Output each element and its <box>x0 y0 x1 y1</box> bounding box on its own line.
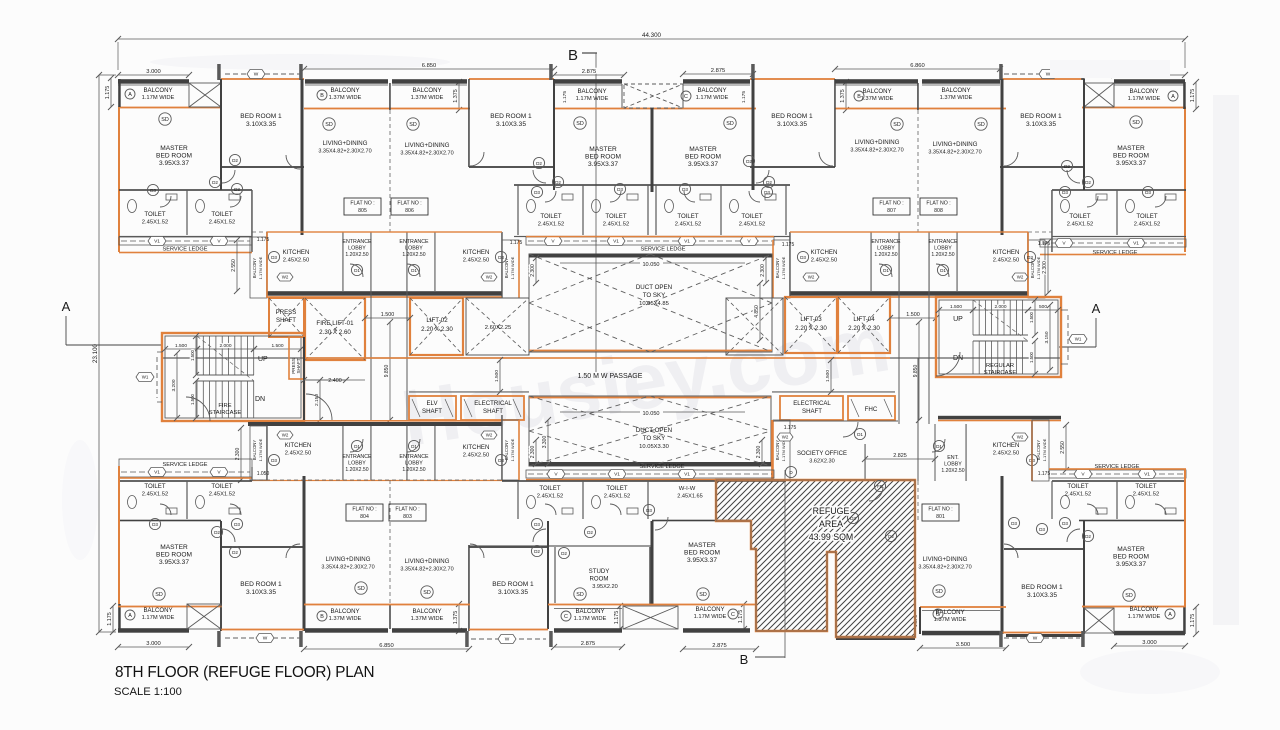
svg-text:1.17M WIDE: 1.17M WIDE <box>510 438 515 461</box>
service ledge top-left <box>119 237 252 245</box>
svg-text:UP: UP <box>258 356 268 363</box>
svg-text:BED ROOM 1: BED ROOM 1 <box>1021 584 1063 591</box>
svg-text:1.20X2.50: 1.20X2.50 <box>345 252 368 258</box>
svg-text:B: B <box>320 93 324 99</box>
svg-text:3.35X4.82+2.30X2.70: 3.35X4.82+2.30X2.70 <box>850 148 903 154</box>
svg-text:D2: D2 <box>587 530 593 535</box>
svg-text:BALCONY: BALCONY <box>143 87 172 94</box>
svg-text:A: A <box>128 92 132 98</box>
svg-text:FHC: FHC <box>865 406 878 413</box>
top overall dimension 44.300 <box>118 38 1185 40</box>
svg-text:2.45X1.65: 2.45X1.65 <box>677 494 703 500</box>
svg-text:500: 500 <box>1039 304 1047 310</box>
svg-text:TOILET: TOILET <box>1135 483 1156 490</box>
svg-text:LOBBY: LOBBY <box>405 461 423 467</box>
svg-text:2.400: 2.400 <box>328 378 342 384</box>
svg-text:UP: UP <box>953 316 963 323</box>
svg-text:STUDY: STUDY <box>589 568 610 575</box>
svg-text:SERVICE LEDGE: SERVICE LEDGE <box>640 464 685 470</box>
svg-text:SD: SD <box>325 122 333 128</box>
svg-text:3.95X3.37: 3.95X3.37 <box>688 161 718 168</box>
svg-text:2.30 X 2.60: 2.30 X 2.60 <box>319 329 351 336</box>
svg-text:3.35X4.82+2.30X2.70: 3.35X4.82+2.30X2.70 <box>928 150 981 156</box>
svg-text:2.45X1.52: 2.45X1.52 <box>1067 222 1093 228</box>
svg-text:2.20 X 2.30: 2.20 X 2.30 <box>421 326 453 333</box>
svg-text:BALCONY: BALCONY <box>504 440 509 461</box>
svg-text:W2: W2 <box>486 433 493 438</box>
svg-text:44.300: 44.300 <box>642 32 661 39</box>
lift 02 <box>410 298 463 355</box>
door arcs top <box>222 170 235 183</box>
svg-text:43.99 SQM: 43.99 SQM <box>809 532 854 542</box>
svg-text:BED ROOM: BED ROOM <box>1113 554 1149 561</box>
svg-text:3.95X3.37: 3.95X3.37 <box>1116 561 1146 568</box>
svg-text:3.35X4.82+2.30X2.70: 3.35X4.82+2.30X2.70 <box>400 567 453 573</box>
svg-text:4.850: 4.850 <box>754 305 760 318</box>
svg-text:1.500: 1.500 <box>271 343 283 349</box>
svg-text:10.05X3.30: 10.05X3.30 <box>639 444 669 450</box>
svg-text:V1: V1 <box>1144 472 1150 478</box>
svg-text:2.60X2.25: 2.60X2.25 <box>485 325 511 331</box>
svg-text:1.17M WIDE: 1.17M WIDE <box>781 256 786 279</box>
svg-text:B: B <box>320 614 324 620</box>
svg-text:ENTRANCE: ENTRANCE <box>399 239 429 245</box>
top band room horizontal walls <box>221 166 304 168</box>
top X-shafts <box>189 83 221 107</box>
svg-text:D2: D2 <box>212 180 218 185</box>
svg-text:LOBBY: LOBBY <box>348 246 366 252</box>
svg-text:BALCONY: BALCONY <box>252 258 257 279</box>
svg-text:SHAFT: SHAFT <box>422 408 442 415</box>
svg-text:W: W <box>254 72 259 78</box>
svg-text:REFUGE: REFUGE <box>813 506 850 516</box>
svg-text:W-I-W: W-I-W <box>679 486 696 492</box>
svg-text:10.05X4.85: 10.05X4.85 <box>639 301 669 307</box>
svg-text:AREA: AREA <box>819 519 843 529</box>
SD circles top <box>159 113 171 125</box>
svg-text:ENTRANCE: ENTRANCE <box>928 239 958 245</box>
svg-text:BALCONY: BALCONY <box>697 87 726 94</box>
dashed window lines bottom <box>225 637 300 639</box>
right shaft <box>726 298 783 355</box>
svg-text:SD: SD <box>935 589 943 595</box>
svg-text:BED ROOM 1: BED ROOM 1 <box>771 113 813 120</box>
svg-text:2.550: 2.550 <box>231 259 237 272</box>
svg-text:2.000: 2.000 <box>219 343 231 349</box>
door arcs bottom <box>160 504 171 515</box>
svg-text:TO SKY: TO SKY <box>643 435 666 442</box>
svg-text:2.45X1.52: 2.45X1.52 <box>675 222 701 228</box>
svg-text:SD: SD <box>726 121 734 127</box>
svg-text:B: B <box>740 652 749 667</box>
svg-text:1.175: 1.175 <box>257 237 270 243</box>
svg-text:D3: D3 <box>534 190 540 195</box>
svg-text:1.175: 1.175 <box>107 612 113 626</box>
svg-text:1.17M WIDE: 1.17M WIDE <box>576 96 609 102</box>
svg-text:BALCONY: BALCONY <box>330 87 359 94</box>
svg-text:D3: D3 <box>1039 527 1045 532</box>
svg-text:1.175: 1.175 <box>105 86 111 100</box>
svg-text:KITCHEN: KITCHEN <box>283 249 310 256</box>
svg-text:2.45X2.50: 2.45X2.50 <box>993 451 1019 457</box>
svg-text:SD: SD <box>161 117 169 123</box>
svg-text:SD: SD <box>699 592 707 598</box>
top orange wall lines <box>221 78 304 80</box>
svg-text:SOCIETY OFFICE: SOCIETY OFFICE <box>797 451 847 457</box>
svg-text:W: W <box>1033 636 1038 642</box>
svg-text:1.37M WIDE: 1.37M WIDE <box>329 95 362 101</box>
refuge area hatched <box>716 480 915 637</box>
svg-text:3.000: 3.000 <box>146 69 161 75</box>
svg-text:3.62X2.30: 3.62X2.30 <box>809 459 835 465</box>
svg-text:BALCONY: BALCONY <box>1036 440 1041 461</box>
svg-text:1.20X2.50: 1.20X2.50 <box>345 467 368 473</box>
svg-text:LIFT-03: LIFT-03 <box>800 316 822 323</box>
svg-text:BED ROOM: BED ROOM <box>585 154 621 161</box>
svg-text:W: W <box>1046 72 1051 78</box>
svg-text:BED ROOM 1: BED ROOM 1 <box>240 113 282 120</box>
service ledge top-right <box>1040 239 1186 247</box>
svg-text:TOILET: TOILET <box>605 213 626 220</box>
svg-text:W: W <box>505 637 510 643</box>
svg-text:3.95X3.37: 3.95X3.37 <box>588 161 618 168</box>
duct open to sky top <box>529 254 772 352</box>
svg-text:B: B <box>857 94 861 100</box>
svg-text:1.37M WIDE: 1.37M WIDE <box>329 616 362 622</box>
regular staircase <box>936 297 1061 377</box>
bottom dims <box>118 646 189 648</box>
svg-text:2.825: 2.825 <box>893 453 907 459</box>
svg-text:BALCONY: BALCONY <box>252 440 257 461</box>
svg-text:D3: D3 <box>1027 255 1033 260</box>
svg-text:3.35X4.82+2.30X2.70: 3.35X4.82+2.30X2.70 <box>400 151 453 157</box>
svg-text:D2: D2 <box>561 551 567 556</box>
svg-text:TOILET: TOILET <box>606 485 627 492</box>
svg-text:TOILET: TOILET <box>539 485 560 492</box>
svg-text:3.35X4.82+2.30X2.70: 3.35X4.82+2.30X2.70 <box>918 565 971 571</box>
svg-text:D3: D3 <box>152 522 158 527</box>
svg-text:BED ROOM: BED ROOM <box>685 154 721 161</box>
svg-text:A: A <box>62 299 71 314</box>
svg-text:TOILET: TOILET <box>677 213 698 220</box>
svg-text:2.875: 2.875 <box>712 643 727 649</box>
svg-text:D1: D1 <box>857 432 863 437</box>
svg-text:2.300: 2.300 <box>1042 261 1048 274</box>
svg-text:A: A <box>1171 94 1175 100</box>
society office <box>773 421 898 422</box>
svg-text:SD: SD <box>576 121 584 127</box>
svg-text:V1: V1 <box>684 239 690 245</box>
svg-text:1.17M WIDE: 1.17M WIDE <box>1036 256 1041 279</box>
svg-text:1.500: 1.500 <box>906 312 920 318</box>
svg-text:804: 804 <box>360 514 369 520</box>
svg-text:BALCONY: BALCONY <box>941 87 970 94</box>
svg-text:3.10X3.35: 3.10X3.35 <box>777 121 807 128</box>
svg-text:D2: D2 <box>1085 534 1091 539</box>
svg-text:V1: V1 <box>154 470 160 476</box>
svg-text:2.20 X 2.30: 2.20 X 2.30 <box>795 325 827 332</box>
svg-text:3.10X3.35: 3.10X3.35 <box>1027 592 1057 599</box>
svg-text:2.45X2.50: 2.45X2.50 <box>811 258 837 264</box>
lower kitchens walls left <box>248 422 502 426</box>
svg-text:D2: D2 <box>746 159 752 164</box>
svg-text:FLAT NO :: FLAT NO : <box>926 201 950 207</box>
lift 03 <box>785 297 837 353</box>
svg-text:1.500: 1.500 <box>494 370 500 382</box>
svg-text:1.17M WIDE: 1.17M WIDE <box>258 438 263 461</box>
svg-text:TOILET: TOILET <box>211 483 232 490</box>
wall stubs below bottom edge <box>217 631 221 647</box>
svg-text:BALCONY: BALCONY <box>330 608 359 615</box>
svg-text:V1: V1 <box>154 239 160 245</box>
mid top kitchens/lobbies walls <box>266 232 268 298</box>
svg-text:SD: SD <box>423 590 431 596</box>
svg-text:2.300: 2.300 <box>760 264 766 277</box>
svg-text:2.300: 2.300 <box>235 448 241 461</box>
svg-text:1.17M WIDE: 1.17M WIDE <box>1042 438 1047 461</box>
bottom X-shafts <box>187 604 221 629</box>
svg-text:D3: D3 <box>800 255 806 260</box>
svg-text:1.175: 1.175 <box>1038 471 1051 477</box>
bottom balcony dark bands <box>118 628 189 633</box>
svg-text:SD: SD <box>409 122 417 128</box>
svg-text:1.20X2.50: 1.20X2.50 <box>874 252 897 258</box>
svg-text:3.35X4.82+2.30X2.70: 3.35X4.82+2.30X2.70 <box>318 149 371 155</box>
svg-text:SERVICE LEDGE: SERVICE LEDGE <box>163 462 208 468</box>
svg-text:D2: D2 <box>555 180 561 185</box>
dashed window lines top <box>225 73 300 75</box>
W1 window left <box>156 357 158 398</box>
svg-text:1.37M WIDE: 1.37M WIDE <box>411 616 444 622</box>
svg-text:W: W <box>263 636 268 642</box>
stair lower area <box>303 337 305 421</box>
svg-text:3.10X3.35: 3.10X3.35 <box>498 589 528 596</box>
svg-text:C: C <box>731 612 735 618</box>
svg-text:8TH FLOOR (REFUGE FLOOR) PLAN: 8TH FLOOR (REFUGE FLOOR) PLAN <box>115 664 374 681</box>
svg-text:D3: D3 <box>498 255 504 260</box>
svg-text:6.850: 6.850 <box>379 643 394 649</box>
svg-text:TOILET: TOILET <box>144 211 165 218</box>
svg-text:V1: V1 <box>613 239 619 245</box>
svg-text:1.50 M W PASSAGE: 1.50 M W PASSAGE <box>578 373 643 380</box>
svg-text:2.45X1.52: 2.45X1.52 <box>209 220 235 226</box>
svg-text:SD: SD <box>977 122 985 128</box>
svg-text:2.875: 2.875 <box>581 641 596 647</box>
svg-text:DUCT OPEN: DUCT OPEN <box>636 427 672 434</box>
svg-text:1.500: 1.500 <box>190 393 195 405</box>
W1 window right <box>1067 315 1069 360</box>
svg-text:D2: D2 <box>766 180 772 185</box>
svg-text:2.20 X 2.30: 2.20 X 2.30 <box>848 325 880 332</box>
flat number boxes top <box>344 198 381 215</box>
svg-text:STAIRCASE: STAIRCASE <box>984 370 1017 376</box>
svg-text:9.850: 9.850 <box>384 365 390 378</box>
svg-text:A: A <box>1168 612 1172 618</box>
svg-text:LIFT-02: LIFT-02 <box>426 317 448 324</box>
svg-text:SD: SD <box>893 122 901 128</box>
svg-text:23.100: 23.100 <box>92 343 99 362</box>
corridor walls below lobbies <box>267 291 502 296</box>
bottom balcony orange tops <box>118 606 222 608</box>
svg-text:1.500: 1.500 <box>381 312 395 318</box>
top balcony inner lines <box>118 84 189 87</box>
svg-text:1.175: 1.175 <box>614 611 620 625</box>
svg-text:TOILET: TOILET <box>1069 213 1090 220</box>
svg-text:1.175: 1.175 <box>510 240 523 246</box>
svg-text:1.175: 1.175 <box>562 91 568 104</box>
top dims <box>118 74 189 76</box>
electrical shaft left <box>461 396 524 420</box>
svg-text:801: 801 <box>936 514 945 520</box>
SD circles bottom <box>153 588 165 600</box>
service ledge top-center <box>526 237 774 245</box>
svg-text:ENTRANCE: ENTRANCE <box>342 454 372 460</box>
svg-text:1.17M WIDE: 1.17M WIDE <box>510 256 515 279</box>
toilet fixtures bottom <box>128 496 137 509</box>
svg-text:BALCONY: BALCONY <box>577 88 606 95</box>
svg-text:ENTRANCE: ENTRANCE <box>399 454 429 460</box>
svg-text:808: 808 <box>934 208 943 214</box>
svg-text:TOILET: TOILET <box>1136 213 1157 220</box>
svg-text:2.45X1.52: 2.45X1.52 <box>538 222 564 228</box>
svg-text:D3: D3 <box>617 187 623 192</box>
svg-text:SD: SD <box>357 586 365 592</box>
svg-text:1.175: 1.175 <box>1190 89 1196 103</box>
svg-text:LIVING+DINING: LIVING+DINING <box>405 558 450 565</box>
svg-text:MASTER: MASTER <box>688 542 716 549</box>
svg-text:6.850: 6.850 <box>422 63 437 69</box>
ELV shaft <box>409 396 456 420</box>
svg-text:FLAT NO :: FLAT NO : <box>928 507 952 513</box>
svg-text:FLAT NO :: FLAT NO : <box>352 507 376 513</box>
svg-text:KITCHEN: KITCHEN <box>463 249 490 256</box>
svg-text:SCALE 1:100: SCALE 1:100 <box>114 686 182 698</box>
svg-text:KITCHEN: KITCHEN <box>463 444 490 451</box>
svg-text:3.95X3.37: 3.95X3.37 <box>687 557 717 564</box>
svg-text:2.45X1.52: 2.45X1.52 <box>1133 492 1159 498</box>
svg-text:BED ROOM: BED ROOM <box>684 550 720 557</box>
svg-text:PRESS: PRESS <box>276 309 297 316</box>
svg-text:BALCONY: BALCONY <box>775 440 780 461</box>
svg-text:FLAT NO :: FLAT NO : <box>350 201 374 207</box>
door circles bottom band <box>149 518 160 529</box>
svg-text:FD: FD <box>877 484 883 489</box>
svg-text:D3: D3 <box>498 458 504 463</box>
svg-text:D3: D3 <box>682 187 688 192</box>
press shaft <box>269 298 304 337</box>
svg-text:1.500: 1.500 <box>190 349 195 361</box>
svg-text:D2: D2 <box>232 550 238 555</box>
svg-text:D3: D3 <box>1062 521 1068 526</box>
svg-text:1.37M WIDE: 1.37M WIDE <box>940 95 973 101</box>
svg-text:3.10X3.35: 3.10X3.35 <box>1026 121 1056 128</box>
svg-text:TOILET: TOILET <box>144 483 165 490</box>
svg-text:BALCONY: BALCONY <box>695 606 724 613</box>
svg-text:2.45X2.50: 2.45X2.50 <box>285 451 311 457</box>
svg-text:1.17M WIDE: 1.17M WIDE <box>696 95 729 101</box>
svg-text:1.375: 1.375 <box>453 611 459 625</box>
svg-text:2.45X1.52: 2.45X1.52 <box>142 492 168 498</box>
svg-text:FIRE LIFT-01: FIRE LIFT-01 <box>316 320 354 327</box>
svg-text:C: C <box>564 614 568 620</box>
svg-text:D2: D2 <box>214 530 220 535</box>
svg-text:DUCT OPEN: DUCT OPEN <box>636 284 672 291</box>
passage <box>162 357 530 358</box>
svg-text:1.175: 1.175 <box>784 425 797 431</box>
lower balcony strips <box>250 426 267 480</box>
svg-text:3.35X4.82+2.30X2.70: 3.35X4.82+2.30X2.70 <box>321 565 374 571</box>
svg-text:KITCHEN: KITCHEN <box>811 249 838 256</box>
svg-text:3.500: 3.500 <box>956 642 971 648</box>
svg-text:D3: D3 <box>234 522 240 527</box>
svg-text:1.500: 1.500 <box>1029 351 1034 363</box>
FHC <box>848 396 895 420</box>
svg-text:3.95X2.20: 3.95X2.20 <box>592 584 618 590</box>
svg-text:1.37M WIDE: 1.37M WIDE <box>411 95 444 101</box>
svg-text:2.45X1.52: 2.45X1.52 <box>142 220 168 226</box>
fire staircase <box>162 333 304 421</box>
svg-text:1.20X2.50: 1.20X2.50 <box>402 467 425 473</box>
svg-text:ELV: ELV <box>426 400 438 407</box>
svg-text:1.375: 1.375 <box>453 89 459 103</box>
svg-text:LOBBY: LOBBY <box>934 246 952 252</box>
svg-text:BALCONY: BALCONY <box>775 258 780 279</box>
svg-text:W2: W2 <box>808 275 815 280</box>
svg-text:2.45X2.50: 2.45X2.50 <box>463 453 489 459</box>
svg-text:D3: D3 <box>1011 521 1017 526</box>
svg-text:1.500: 1.500 <box>175 343 187 349</box>
toilet fixtures top <box>128 200 137 213</box>
bottom toilet dividers <box>186 481 187 519</box>
svg-text:807: 807 <box>887 208 896 214</box>
svg-text:FLAT NO :: FLAT NO : <box>397 201 421 207</box>
svg-text:1.17M WIDE: 1.17M WIDE <box>142 615 175 621</box>
svg-text:1.17M WIDE: 1.17M WIDE <box>258 256 263 279</box>
balcony vertical strips mid <box>250 237 267 298</box>
svg-text:BED ROOM: BED ROOM <box>156 153 192 160</box>
svg-text:BED ROOM 1: BED ROOM 1 <box>490 113 532 120</box>
svg-text:SHAFT: SHAFT <box>296 358 301 373</box>
svg-text:W2: W2 <box>1017 435 1024 440</box>
svg-text:1.20X2.50: 1.20X2.50 <box>941 468 964 474</box>
svg-text:LIVING+DINING: LIVING+DINING <box>933 141 978 148</box>
svg-text:V1: V1 <box>1133 241 1139 247</box>
svg-text:TO SKY: TO SKY <box>643 292 666 299</box>
top balcony dark bands <box>118 79 189 84</box>
svg-text:SERVICE LEDGE: SERVICE LEDGE <box>163 247 208 253</box>
svg-text:806: 806 <box>405 208 414 214</box>
left overall dimension 23.100 <box>98 75 100 632</box>
svg-text:D3: D3 <box>271 255 277 260</box>
svg-text:FLAT NO :: FLAT NO : <box>395 507 419 513</box>
svg-text:MASTER: MASTER <box>160 544 188 551</box>
scan streak right <box>1213 95 1239 625</box>
svg-text:LOBBY: LOBBY <box>405 246 423 252</box>
svg-text:SD: SD <box>576 592 584 598</box>
svg-text:1.20X2.50: 1.20X2.50 <box>931 252 954 258</box>
svg-text:D3: D3 <box>1062 190 1068 195</box>
svg-text:D3: D3 <box>1145 190 1151 195</box>
svg-text:3.10X3.35: 3.10X3.35 <box>496 121 526 128</box>
svg-text:W1: W1 <box>1075 337 1082 342</box>
svg-text:TOILET: TOILET <box>540 213 561 220</box>
svg-text:TOILET: TOILET <box>1067 483 1088 490</box>
svg-text:1.175: 1.175 <box>782 242 795 248</box>
svg-text:ELECTRICAL: ELECTRICAL <box>793 400 831 407</box>
svg-text:DN: DN <box>255 396 265 403</box>
svg-text:2.45X1.52: 2.45X1.52 <box>604 494 630 500</box>
svg-text:B: B <box>568 47 578 64</box>
